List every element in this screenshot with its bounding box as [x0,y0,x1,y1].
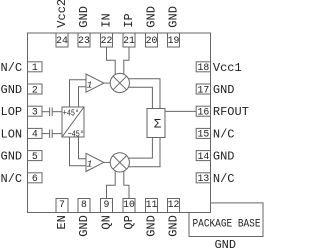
svg-text:1: 1 [32,62,38,73]
svg-text:IN: IN [100,13,114,27]
svg-text:GND: GND [1,150,23,164]
svg-text:RFOUT: RFOUT [213,105,249,119]
svg-text:LOP: LOP [1,105,23,119]
svg-text:GND: GND [167,6,181,28]
svg-text:+45°: +45° [63,108,79,119]
svg-text:QP: QP [122,215,136,229]
svg-text:9: 9 [104,199,110,210]
svg-text:4: 4 [32,129,38,140]
svg-text:13: 13 [198,173,210,184]
svg-text:1: 1 [87,159,93,170]
svg-text:23: 23 [78,35,90,46]
svg-text:5: 5 [32,151,38,162]
svg-text:2: 2 [32,84,38,95]
svg-text:18: 18 [198,62,210,73]
svg-text:GND: GND [1,83,23,97]
svg-text:GND: GND [213,83,235,97]
svg-text:17: 17 [198,84,210,95]
svg-text:15: 15 [198,129,210,140]
svg-text:N/C: N/C [213,172,235,186]
svg-text:LON: LON [1,127,23,141]
svg-text:11: 11 [146,199,158,210]
svg-text:Vcc1: Vcc1 [213,61,242,75]
svg-text:IP: IP [122,13,136,27]
svg-text:N/C: N/C [213,127,235,141]
svg-text:GND: GND [214,238,236,250]
svg-text:N/C: N/C [1,61,23,75]
svg-text:GND: GND [145,215,159,237]
svg-text:GND: GND [145,6,159,28]
svg-text:19: 19 [168,35,180,46]
svg-text:GND: GND [77,215,91,237]
svg-text:Vcc2: Vcc2 [55,0,69,28]
svg-text:22: 22 [101,35,113,46]
svg-text:7: 7 [59,199,65,210]
svg-text:GND: GND [213,150,235,164]
svg-text:Σ: Σ [154,117,162,131]
svg-text:10: 10 [123,199,135,210]
svg-text:12: 12 [168,199,180,210]
svg-text:1: 1 [87,79,93,90]
svg-text:21: 21 [123,35,135,46]
svg-text:16: 16 [198,107,210,118]
svg-text:EN: EN [55,215,69,229]
svg-text:14: 14 [198,151,210,162]
svg-text:20: 20 [146,35,158,46]
svg-text:6: 6 [32,173,38,184]
svg-text:PACKAGE BASE: PACKAGE BASE [193,218,261,230]
svg-text:QN: QN [100,215,114,229]
svg-text:24: 24 [56,35,68,46]
svg-text:3: 3 [32,107,38,118]
svg-text:GND: GND [167,215,181,237]
svg-text:N/C: N/C [1,172,23,186]
svg-text:8: 8 [81,199,87,210]
svg-text:−45°: −45° [68,128,84,139]
svg-text:GND: GND [77,6,91,28]
